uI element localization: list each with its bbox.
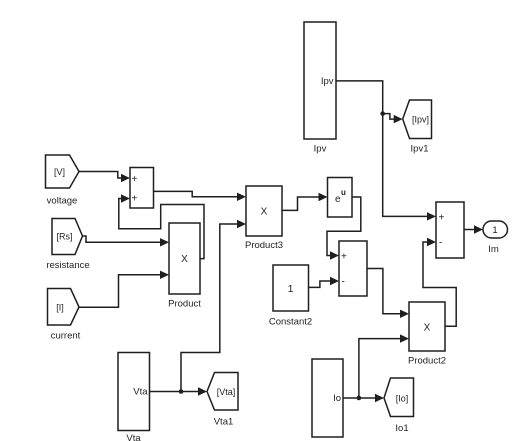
wire Vta to Vta1: [150, 387, 208, 395]
wire Io to Io1: [343, 394, 384, 402]
exp block eu: [328, 178, 353, 218]
svg-text:Vta: Vta: [133, 387, 148, 398]
wire Ipv to Add: [336, 81, 436, 221]
wire Product3 to exp: [282, 193, 328, 211]
svg-text:Ipv1: Ipv1: [411, 144, 429, 155]
svg-text:Product2: Product2: [408, 356, 446, 367]
svg-text:+: +: [439, 213, 445, 224]
wire Rs to Product: [83, 236, 170, 247]
svg-text:[Ipv]: [Ipv]: [412, 115, 429, 125]
svg-text:Io: Io: [333, 393, 341, 404]
sum block Sum1: [130, 168, 154, 209]
svg-text:voltage: voltage: [47, 196, 78, 207]
constant block Constant2: [273, 265, 309, 311]
svg-text:Vta: Vta: [126, 433, 141, 441]
sum block Add: [436, 202, 464, 258]
product block Product2: [409, 302, 445, 351]
junction on Io wire: [357, 396, 362, 401]
svg-text:+: +: [132, 174, 138, 185]
svg-text:Constant2: Constant2: [269, 317, 312, 328]
svg-text:Im: Im: [488, 244, 499, 255]
product block Product3: [246, 186, 282, 236]
svg-text:X: X: [261, 207, 268, 218]
svg-text:-: -: [342, 277, 345, 288]
svg-text:[I]: [I]: [56, 303, 64, 313]
goto tag Ipv1: [403, 100, 432, 139]
svg-text:resistance: resistance: [46, 260, 89, 271]
svg-text:[V]: [V]: [54, 167, 65, 177]
wire Constant2 to Sum2: [309, 277, 340, 288]
subsystem block Vta: [118, 353, 150, 431]
wire Product2 to Add: [423, 238, 456, 326]
wire V to Sum1: [79, 172, 130, 183]
from tag I: [48, 289, 80, 326]
svg-text:X: X: [181, 254, 188, 265]
svg-text:Ipv: Ipv: [321, 76, 334, 87]
outport Im: [483, 221, 508, 238]
sum block Sum2: [339, 241, 367, 296]
svg-text:-: -: [439, 238, 442, 249]
wire Product to Sum1: [119, 194, 204, 258]
svg-text:1: 1: [492, 225, 497, 236]
svg-text:[Vta]: [Vta]: [217, 387, 236, 397]
svg-text:current: current: [51, 331, 81, 342]
goto tag Io1: [384, 378, 414, 417]
wire I to Product: [79, 271, 169, 308]
svg-text:[Io]: [Io]: [396, 394, 409, 404]
junction on Vta wire: [179, 389, 184, 394]
wire Sum2 to Product2: [367, 269, 409, 319]
svg-text:1: 1: [288, 283, 294, 295]
junction on Ipv wire: [380, 111, 385, 116]
wire Sum1 to Product3: [154, 191, 247, 201]
wire Io branch to Product2: [359, 334, 409, 398]
product block Product: [169, 223, 200, 294]
wire exp to Sum2: [327, 197, 361, 260]
svg-text:[Rs]: [Rs]: [56, 232, 72, 242]
svg-text:X: X: [424, 323, 431, 334]
svg-text:Product: Product: [168, 299, 201, 310]
subsystem block Ipv: [304, 22, 336, 139]
from tag Rs: [52, 219, 83, 255]
svg-text:+: +: [132, 194, 138, 205]
wire Ipv branch to Ipv1: [383, 114, 403, 124]
svg-text:Vta1: Vta1: [214, 417, 234, 428]
svg-text:Io1: Io1: [395, 423, 408, 434]
subsystem block Io: [312, 359, 343, 437]
svg-text:+: +: [341, 252, 347, 263]
svg-text:Ipv: Ipv: [314, 144, 327, 155]
wire Vta branch to Product3: [181, 220, 246, 392]
goto tag Vta1: [207, 373, 238, 411]
wire Add to Im: [464, 225, 483, 233]
svg-text:Product3: Product3: [245, 240, 283, 251]
from tag V: [46, 155, 80, 188]
svg-text:u: u: [341, 188, 346, 197]
